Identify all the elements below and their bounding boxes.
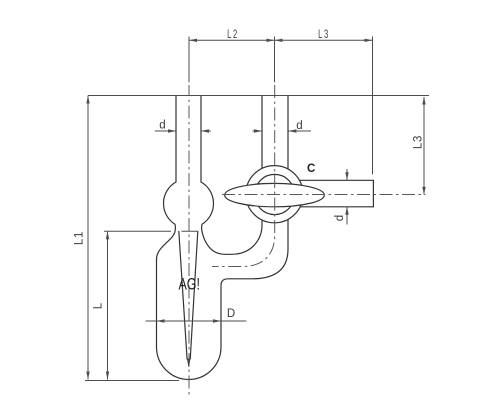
svg-text:L3: L3 bbox=[318, 29, 330, 41]
svg-text:d: d bbox=[159, 120, 165, 132]
svg-text:D: D bbox=[227, 308, 235, 320]
svg-text:L3: L3 bbox=[412, 135, 424, 149]
svg-text:AG!: AG! bbox=[178, 275, 200, 294]
svg-text:d: d bbox=[334, 215, 346, 221]
svg-text:L2: L2 bbox=[227, 29, 239, 41]
svg-text:L1: L1 bbox=[73, 231, 85, 245]
svg-text:L: L bbox=[92, 302, 104, 309]
svg-text:C: C bbox=[307, 163, 315, 175]
svg-text:d: d bbox=[296, 120, 302, 132]
